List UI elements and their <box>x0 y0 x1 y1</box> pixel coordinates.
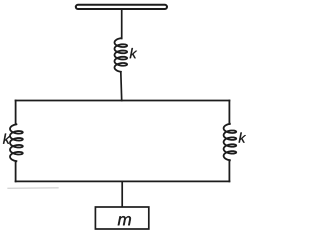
spring k (left) <box>10 124 23 161</box>
wire: top spring to frame <box>120 72 123 101</box>
spring k (top) <box>115 38 128 72</box>
frame left edge lower segment <box>15 161 17 181</box>
label m (mass) <box>118 216 131 225</box>
frame right edge upper segment <box>228 101 230 125</box>
label k (left spring) <box>3 134 10 144</box>
wire: support to top spring <box>121 9 123 38</box>
label k (top spring) <box>130 48 137 58</box>
spring k (right) <box>224 124 237 161</box>
label k (right spring) <box>239 132 246 142</box>
frame right edge lower segment <box>228 160 230 181</box>
wire: frame to mass <box>121 181 123 207</box>
fixed support bar <box>76 5 167 9</box>
scan smudge <box>8 187 58 190</box>
mass block <box>95 207 148 229</box>
frame left edge upper segment <box>15 101 17 125</box>
frame bottom edge <box>16 180 230 182</box>
frame top edge <box>16 100 230 102</box>
